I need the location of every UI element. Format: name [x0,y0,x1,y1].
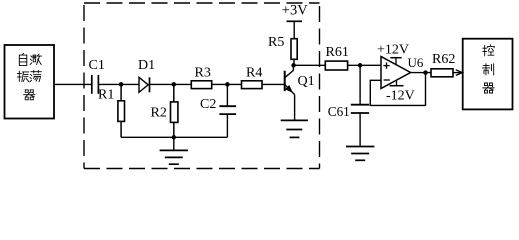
svg-text:Q1: Q1 [298,74,315,89]
svg-text:R2: R2 [151,105,167,120]
svg-text:C2: C2 [200,97,216,112]
svg-text:D1: D1 [138,58,155,73]
svg-text:R4: R4 [246,65,262,80]
svg-text:R5: R5 [268,35,284,50]
svg-text:R61: R61 [326,45,349,60]
svg-text:U6: U6 [408,55,424,70]
svg-text:R3: R3 [195,65,211,80]
svg-text:R62: R62 [432,52,455,67]
svg-text:+12V: +12V [377,43,409,58]
svg-text:+3V: +3V [282,2,308,18]
svg-text:R1: R1 [98,87,114,102]
svg-text:C61: C61 [328,104,350,119]
svg-text:C1: C1 [89,58,105,73]
svg-text:-12V: -12V [386,89,415,104]
